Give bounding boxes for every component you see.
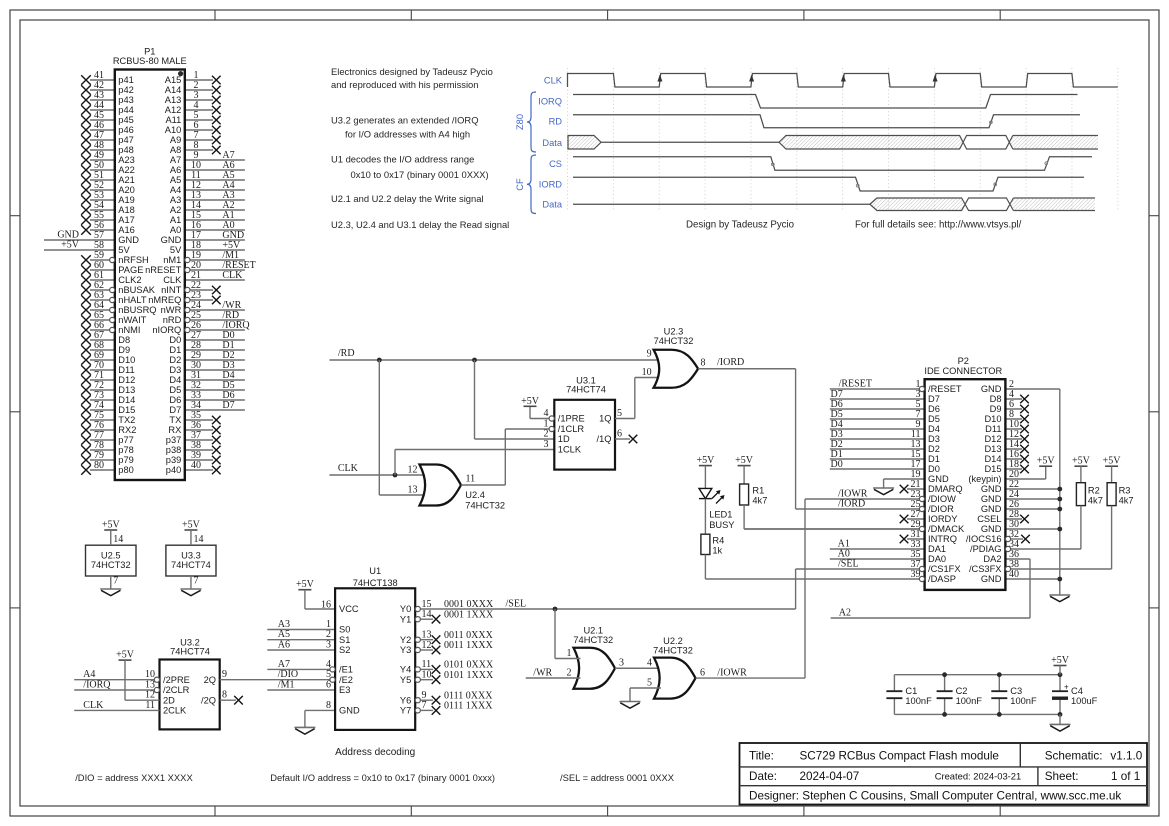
svg-text:+5V: +5V: [696, 455, 715, 466]
svg-text:p39: p39: [166, 455, 182, 465]
svg-text:/1CLR: /1CLR: [558, 424, 585, 434]
svg-text:A7: A7: [170, 155, 181, 165]
svg-text:40: 40: [191, 460, 201, 471]
svg-text:Design by Tadeusz Pycio: Design by Tadeusz Pycio: [686, 219, 794, 230]
svg-text:A12: A12: [165, 105, 182, 115]
svg-text:14: 14: [113, 534, 123, 545]
svg-text:A8: A8: [170, 145, 181, 155]
svg-text:U1 decodes the I/O address ran: U1 decodes the I/O address range: [331, 153, 474, 164]
svg-text:1Q: 1Q: [599, 414, 611, 424]
svg-text:GND: GND: [339, 706, 360, 716]
svg-text:CLK: CLK: [544, 76, 563, 86]
svg-text:2024-04-07: 2024-04-07: [800, 770, 860, 783]
svg-text:nRFSH: nRFSH: [118, 255, 148, 265]
svg-text:A19: A19: [118, 195, 135, 205]
svg-text:Address decoding: Address decoding: [335, 747, 415, 758]
svg-text:D5: D5: [169, 385, 181, 395]
svg-text:/DIOW: /DIOW: [928, 494, 956, 504]
svg-text:+5V: +5V: [116, 650, 135, 661]
svg-text:p46: p46: [118, 125, 134, 135]
svg-text:D12: D12: [984, 434, 1001, 444]
svg-text:+5V: +5V: [296, 579, 315, 590]
svg-text:nWR: nWR: [161, 305, 182, 315]
svg-text:A17: A17: [118, 215, 135, 225]
svg-text:U2.3: U2.3: [664, 326, 684, 336]
svg-text:BUSY: BUSY: [709, 520, 734, 530]
svg-text:Y2: Y2: [400, 635, 411, 645]
svg-text:0101 1XXX: 0101 1XXX: [444, 670, 494, 681]
svg-text:D4: D4: [169, 375, 181, 385]
svg-text:3: 3: [544, 439, 549, 450]
svg-text:2: 2: [544, 429, 549, 440]
svg-text:p79: p79: [118, 455, 134, 465]
svg-text:and reproduced with his permis: and reproduced with his permission: [331, 79, 478, 90]
svg-text:D15: D15: [984, 464, 1001, 474]
svg-text:D10: D10: [118, 355, 135, 365]
svg-text:/E1: /E1: [339, 665, 353, 675]
svg-text:/SEL: /SEL: [506, 599, 527, 610]
svg-text:A2: A2: [839, 608, 851, 619]
svg-text:D14: D14: [118, 395, 135, 405]
svg-text:CSEL: CSEL: [977, 514, 1001, 524]
svg-text:Schematic:: Schematic:: [1045, 750, 1103, 763]
svg-text:8: 8: [222, 690, 227, 701]
svg-text:CS: CS: [549, 159, 562, 169]
svg-text:A16: A16: [118, 225, 135, 235]
svg-text:5V: 5V: [118, 245, 130, 255]
svg-text:D0: D0: [169, 335, 181, 345]
svg-text:9: 9: [647, 349, 652, 360]
svg-text:74HCT32: 74HCT32: [573, 635, 613, 645]
svg-text:D1: D1: [169, 345, 181, 355]
svg-text:R2: R2: [1088, 486, 1100, 496]
svg-text:1CLK: 1CLK: [558, 445, 582, 455]
svg-text:D13: D13: [984, 444, 1001, 454]
svg-text:1k: 1k: [712, 546, 722, 556]
svg-text:/2CLR: /2CLR: [163, 685, 190, 695]
svg-text:Default I/O address = 0x10 to: Default I/O address = 0x10 to 0x17 (bina…: [270, 772, 495, 783]
svg-text:LED1: LED1: [709, 510, 732, 520]
svg-text:A21: A21: [118, 175, 135, 185]
svg-text:+5V: +5V: [735, 455, 754, 466]
svg-text:+5V: +5V: [1103, 456, 1122, 467]
svg-text:Z80: Z80: [515, 114, 525, 130]
svg-text:74HCT32: 74HCT32: [654, 336, 694, 346]
svg-text:Title:: Title:: [749, 750, 774, 763]
svg-text:GND: GND: [928, 474, 949, 484]
svg-text:/DMACK: /DMACK: [928, 524, 965, 534]
svg-text:100uF: 100uF: [1071, 696, 1098, 706]
svg-text:D14: D14: [984, 454, 1001, 464]
svg-text:+: +: [1064, 683, 1069, 692]
svg-text:DA0: DA0: [928, 554, 946, 564]
svg-text:D9: D9: [990, 404, 1002, 414]
svg-text:v1.1.0: v1.1.0: [1110, 750, 1142, 763]
svg-text:A14: A14: [165, 85, 182, 95]
svg-text:1 of 1: 1 of 1: [1111, 770, 1140, 783]
svg-text:7: 7: [193, 576, 198, 587]
svg-text:nBUSAK: nBUSAK: [118, 285, 155, 295]
svg-text:D8: D8: [990, 394, 1002, 404]
svg-text:p78: p78: [118, 445, 134, 455]
svg-text:74HCT32: 74HCT32: [465, 500, 505, 510]
svg-text:/DASP: /DASP: [928, 574, 956, 584]
svg-text:A0: A0: [170, 225, 181, 235]
svg-text:p47: p47: [118, 135, 134, 145]
svg-text:7: 7: [422, 700, 427, 711]
svg-text:TX: TX: [169, 415, 181, 425]
svg-text:E3: E3: [339, 685, 350, 695]
svg-text:nBUSRQ: nBUSRQ: [118, 305, 156, 315]
svg-text:2Q: 2Q: [204, 675, 216, 685]
svg-text:D11: D11: [118, 365, 134, 375]
svg-text:IORD: IORD: [539, 180, 563, 190]
svg-text:0011 1XXX: 0011 1XXX: [444, 640, 494, 651]
svg-text:Date:: Date:: [749, 770, 777, 783]
svg-text:D2: D2: [169, 355, 181, 365]
svg-text:CLK: CLK: [338, 463, 359, 474]
svg-text:p80: p80: [118, 465, 134, 475]
svg-text:D12: D12: [118, 375, 135, 385]
svg-text:INTRQ: INTRQ: [928, 534, 957, 544]
svg-text:U1: U1: [369, 566, 381, 576]
svg-text:TX2: TX2: [118, 415, 135, 425]
svg-text:74HCT74: 74HCT74: [171, 560, 211, 570]
svg-text:U2.1 and U2.2 delay the Write: U2.1 and U2.2 delay the Write signal: [331, 193, 484, 204]
svg-text:C1: C1: [905, 686, 917, 696]
svg-text:IORDY: IORDY: [928, 514, 957, 524]
svg-text:Electronics designed by Tadeus: Electronics designed by Tadeusz Pycio: [331, 66, 493, 77]
svg-text:CLK: CLK: [163, 275, 182, 285]
svg-text:A11: A11: [165, 115, 181, 125]
svg-text:GND: GND: [118, 235, 139, 245]
svg-text:R1: R1: [752, 486, 764, 496]
svg-text:nNMI: nNMI: [118, 325, 140, 335]
svg-text:GND: GND: [981, 574, 1002, 584]
svg-text:9: 9: [222, 669, 227, 680]
svg-text:+5V: +5V: [61, 240, 80, 251]
svg-text:D4: D4: [928, 424, 940, 434]
svg-text:RCBUS-80 MALE: RCBUS-80 MALE: [113, 56, 187, 66]
svg-text:+5V: +5V: [1037, 456, 1056, 467]
svg-text:CF: CF: [515, 178, 525, 191]
svg-text:Y1: Y1: [400, 614, 411, 624]
svg-text:A7: A7: [278, 659, 290, 670]
svg-text:/1Q: /1Q: [597, 434, 612, 444]
svg-text:D0: D0: [928, 464, 940, 474]
svg-text:p37: p37: [166, 435, 182, 445]
svg-text:D13: D13: [118, 385, 135, 395]
svg-text:P1: P1: [144, 47, 155, 57]
svg-text:p43: p43: [118, 95, 134, 105]
svg-text:RX: RX: [168, 425, 181, 435]
svg-text:VCC: VCC: [339, 604, 359, 614]
svg-text:C4: C4: [1071, 686, 1083, 696]
svg-text:U2.3, U2.4 and U3.1 delay the: U2.3, U2.4 and U3.1 delay the Read signa…: [331, 219, 509, 230]
svg-text:IORQ: IORQ: [538, 96, 562, 106]
svg-text:A20: A20: [118, 185, 135, 195]
svg-text:GND: GND: [981, 494, 1002, 504]
svg-text:80: 80: [94, 460, 104, 471]
svg-text:A10: A10: [165, 125, 182, 135]
svg-text:A3: A3: [170, 195, 181, 205]
svg-text:A22: A22: [118, 165, 135, 175]
svg-text:+5V: +5V: [102, 520, 121, 531]
svg-text:4: 4: [647, 658, 652, 669]
svg-text:nRD: nRD: [163, 315, 182, 325]
svg-text:A15: A15: [165, 75, 182, 85]
svg-text:1D: 1D: [558, 434, 570, 444]
svg-text:P2: P2: [958, 356, 969, 366]
svg-text:/RESET: /RESET: [928, 384, 962, 394]
svg-text:p44: p44: [118, 105, 134, 115]
svg-text:D15: D15: [118, 405, 135, 415]
svg-text:Data: Data: [542, 200, 562, 210]
svg-text:A9: A9: [170, 135, 181, 145]
svg-text:/1PRE: /1PRE: [558, 414, 585, 424]
svg-text:S2: S2: [339, 645, 350, 655]
svg-text:A2: A2: [170, 205, 181, 215]
svg-text:5V: 5V: [170, 245, 182, 255]
svg-text:/M1: /M1: [278, 680, 295, 691]
svg-text:DA2: DA2: [983, 554, 1001, 564]
svg-text:Y7: Y7: [400, 706, 411, 716]
svg-text:+5V: +5V: [182, 520, 201, 531]
svg-text:/2PRE: /2PRE: [163, 675, 190, 685]
svg-text:D5: D5: [928, 414, 940, 424]
svg-text:11: 11: [145, 700, 155, 711]
svg-text:Y0: Y0: [400, 604, 411, 614]
svg-text:6: 6: [617, 429, 622, 440]
svg-text:A23: A23: [118, 155, 135, 165]
svg-text:16: 16: [321, 600, 331, 611]
svg-text:8: 8: [326, 700, 331, 711]
svg-text:Y3: Y3: [400, 645, 411, 655]
svg-text:p38: p38: [166, 445, 182, 455]
svg-text:for I/O addresses with A4 high: for I/O addresses with A4 high: [345, 128, 470, 139]
svg-text:14: 14: [422, 609, 432, 620]
svg-text:DA1: DA1: [928, 544, 946, 554]
svg-text:nIORQ: nIORQ: [152, 325, 181, 335]
svg-text:D6: D6: [169, 395, 181, 405]
svg-text:12: 12: [422, 640, 432, 651]
svg-text:A6: A6: [278, 640, 290, 651]
svg-text:0x10 to 0x17 (binary 0001 0XXX: 0x10 to 0x17 (binary 0001 0XXX): [351, 169, 489, 180]
svg-text:nHALT: nHALT: [118, 295, 147, 305]
svg-text:/RESET: /RESET: [839, 379, 872, 390]
svg-text:/IORD: /IORD: [838, 499, 865, 510]
svg-text:/SEL = address 0001 0XXX: /SEL = address 0001 0XXX: [560, 772, 675, 783]
svg-text:3: 3: [619, 658, 624, 669]
svg-text:74HCT138: 74HCT138: [353, 578, 398, 588]
svg-text:A6: A6: [170, 165, 181, 175]
svg-text:4k7: 4k7: [1119, 495, 1134, 505]
svg-text:nWAIT: nWAIT: [118, 315, 146, 325]
svg-text:74HCT32: 74HCT32: [653, 646, 693, 656]
svg-text:For full details see: http://w: For full details see: http://www.vtsys.p…: [855, 219, 1022, 230]
svg-text:D3: D3: [928, 434, 940, 444]
svg-text:/IOCS16: /IOCS16: [966, 534, 1002, 544]
svg-text:+5V: +5V: [1072, 456, 1091, 467]
svg-text:nINT: nINT: [161, 285, 181, 295]
svg-text:100nF: 100nF: [905, 696, 932, 706]
svg-text:p41: p41: [118, 75, 134, 85]
svg-text:D6: D6: [928, 404, 940, 414]
svg-text:+5V: +5V: [1051, 655, 1070, 666]
svg-text:/RD: /RD: [338, 348, 355, 359]
svg-text:R3: R3: [1119, 486, 1131, 496]
svg-text:D9: D9: [118, 345, 130, 355]
svg-text:10: 10: [422, 670, 432, 681]
svg-text:100nF: 100nF: [956, 696, 983, 706]
svg-text:/IORQ: /IORQ: [83, 680, 111, 691]
svg-text:DMARQ: DMARQ: [928, 484, 963, 494]
svg-text:GND: GND: [981, 384, 1002, 394]
svg-text:13: 13: [408, 485, 418, 496]
svg-text:Designer: Stephen C Cousins, S: Designer: Stephen C Cousins, Small Compu…: [749, 790, 1121, 803]
svg-text:/DIO = address XXX1 XXXX: /DIO = address XXX1 XXXX: [75, 772, 193, 783]
svg-text:PAGE: PAGE: [118, 265, 143, 275]
svg-text:GND: GND: [981, 504, 1002, 514]
svg-text:U3.2 generates an extended /IO: U3.2 generates an extended /IORQ: [331, 115, 479, 126]
svg-text:74HCT74: 74HCT74: [566, 385, 606, 395]
svg-text:2: 2: [567, 668, 572, 679]
svg-text:p45: p45: [118, 115, 134, 125]
svg-text:/2Q: /2Q: [201, 695, 216, 705]
svg-text:7: 7: [113, 576, 118, 587]
svg-text:S1: S1: [339, 635, 350, 645]
svg-text:D7: D7: [222, 400, 234, 411]
svg-text:D3: D3: [169, 365, 181, 375]
svg-text:R4: R4: [712, 536, 724, 546]
svg-text:74HCT74: 74HCT74: [170, 646, 210, 656]
svg-text:A4: A4: [170, 185, 181, 195]
svg-text:Created: 2024-03-21: Created: 2024-03-21: [935, 771, 1022, 782]
svg-text:GND: GND: [981, 524, 1002, 534]
svg-text:/E2: /E2: [339, 675, 353, 685]
svg-text:100nF: 100nF: [1010, 696, 1037, 706]
svg-text:Y4: Y4: [400, 665, 411, 675]
svg-text:p48: p48: [118, 145, 134, 155]
svg-text:14: 14: [193, 534, 203, 545]
svg-text:A5: A5: [170, 175, 181, 185]
svg-text:/PDIAG: /PDIAG: [970, 544, 1002, 554]
svg-text:/IOWR: /IOWR: [717, 667, 747, 678]
svg-text:D0: D0: [831, 459, 843, 470]
svg-text:CLK: CLK: [83, 700, 104, 711]
svg-text:U2.4: U2.4: [465, 490, 485, 500]
svg-text:2CLK: 2CLK: [163, 706, 187, 716]
svg-text:A13: A13: [165, 95, 182, 105]
svg-text:8: 8: [701, 357, 706, 368]
svg-text:CLK2: CLK2: [118, 275, 141, 285]
svg-text:5: 5: [647, 678, 652, 689]
svg-text:D2: D2: [928, 444, 940, 454]
svg-text:Data: Data: [542, 138, 562, 148]
svg-text:GND: GND: [161, 235, 182, 245]
svg-text:nM1: nM1: [163, 255, 181, 265]
svg-text:SC729 RCBus Compact Flash modu: SC729 RCBus Compact Flash module: [800, 750, 999, 763]
svg-text:p42: p42: [118, 85, 134, 95]
svg-text:D10: D10: [984, 414, 1001, 424]
svg-text:/CS3FX: /CS3FX: [969, 564, 1002, 574]
svg-text:RX2: RX2: [118, 425, 136, 435]
svg-text:10: 10: [642, 367, 652, 378]
svg-text:4k7: 4k7: [752, 496, 767, 506]
svg-text:/CS1FX: /CS1FX: [928, 564, 961, 574]
svg-text:A18: A18: [118, 205, 135, 215]
svg-text:D7: D7: [169, 405, 181, 415]
svg-text:Sheet:: Sheet:: [1045, 770, 1079, 783]
svg-text:/DIOR: /DIOR: [928, 504, 954, 514]
svg-text:GND: GND: [981, 484, 1002, 494]
svg-text:5: 5: [617, 408, 622, 419]
svg-text:nMREQ: nMREQ: [148, 295, 181, 305]
svg-text:A1: A1: [170, 215, 181, 225]
svg-text:+5V: +5V: [521, 396, 540, 407]
svg-text:D8: D8: [118, 335, 130, 345]
svg-text:0001 1XXX: 0001 1XXX: [444, 609, 494, 620]
svg-text:p77: p77: [118, 435, 134, 445]
svg-text:/SEL: /SEL: [838, 559, 859, 570]
svg-text:D7: D7: [928, 394, 940, 404]
svg-text:1: 1: [567, 648, 572, 659]
svg-text:Y6: Y6: [400, 695, 411, 705]
svg-text:4: 4: [544, 408, 549, 419]
svg-text:nRESET: nRESET: [145, 265, 181, 275]
svg-text:/IORD: /IORD: [717, 357, 744, 368]
svg-text:D11: D11: [985, 424, 1001, 434]
svg-text:0111 1XXX: 0111 1XXX: [444, 701, 493, 712]
svg-text:(keypin): (keypin): [968, 474, 1001, 484]
svg-text:/WR: /WR: [533, 667, 552, 678]
svg-text:S0: S0: [339, 625, 350, 635]
svg-text:C2: C2: [956, 686, 968, 696]
svg-text:12: 12: [408, 465, 418, 476]
svg-text:RD: RD: [549, 117, 563, 127]
svg-text:CLK: CLK: [222, 270, 243, 281]
svg-text:IDE CONNECTOR: IDE CONNECTOR: [924, 366, 1002, 376]
svg-text:74HCT32: 74HCT32: [91, 560, 131, 570]
svg-text:6: 6: [700, 668, 705, 679]
svg-text:2D: 2D: [163, 695, 175, 705]
svg-text:11: 11: [466, 474, 476, 485]
svg-text:D1: D1: [928, 454, 940, 464]
svg-text:Y5: Y5: [400, 675, 411, 685]
svg-text:C3: C3: [1010, 686, 1022, 696]
svg-text:4k7: 4k7: [1088, 495, 1103, 505]
svg-text:p40: p40: [166, 465, 182, 475]
svg-text:3: 3: [326, 640, 331, 651]
